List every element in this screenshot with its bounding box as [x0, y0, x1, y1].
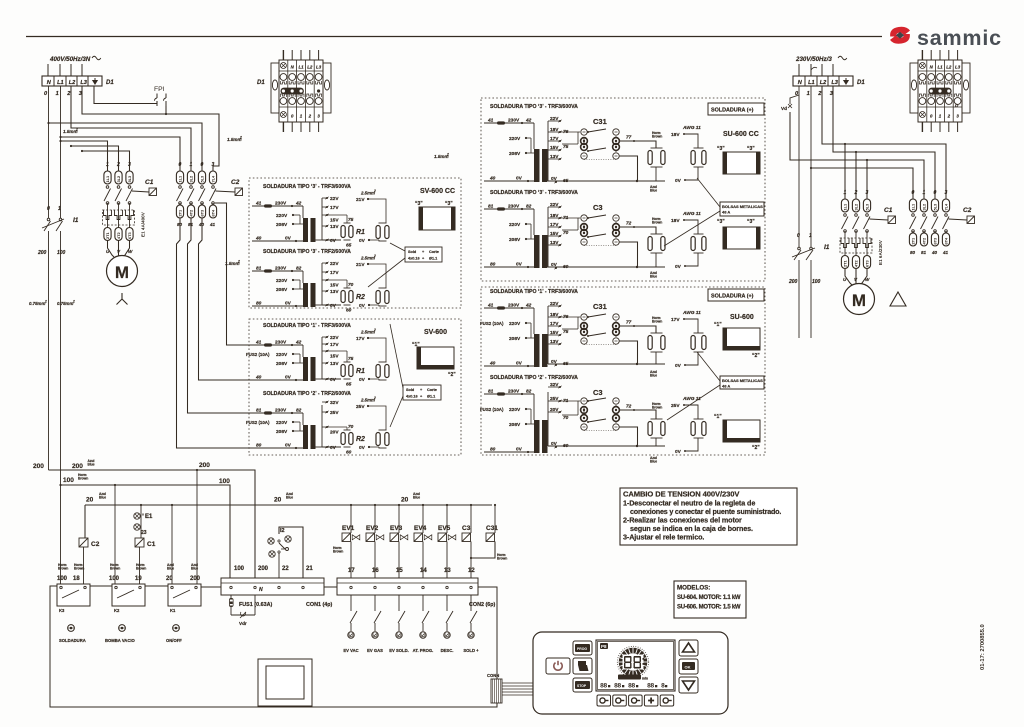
svg-text:2: 2 — [373, 189, 376, 193]
svg-text:2: 2 — [947, 114, 951, 119]
svg-text:3-Ajustar el rele termico.: 3-Ajustar el rele termico. — [623, 533, 704, 542]
svg-text:Brown: Brown — [652, 406, 662, 410]
svg-text:200: 200 — [190, 576, 201, 582]
svg-text:0.75mm: 0.75mm — [29, 301, 45, 306]
soldadura box lower left dotted — [249, 319, 461, 455]
button down arrow — [679, 677, 698, 693]
svg-text:25V: 25V — [550, 396, 559, 402]
svg-text:EV2: EV2 — [366, 525, 379, 532]
svg-text:75: 75 — [348, 356, 354, 362]
svg-text:Brown: Brown — [333, 550, 343, 554]
svg-text:Brown: Brown — [652, 135, 662, 139]
svg-text:“3”: “3” — [747, 146, 755, 152]
transformer secondary taps right — [547, 207, 549, 267]
svg-text:Brown: Brown — [110, 567, 120, 571]
svg-text:L3: L3 — [955, 65, 961, 70]
svg-text:208V: 208V — [276, 287, 288, 293]
svg-text:“2”: “2” — [752, 353, 760, 359]
svg-text:SOLDADURA TIPO ‘2’ - TRF2/600V: SOLDADURA TIPO ‘2’ - TRF2/600VA — [490, 375, 578, 381]
svg-text:SOLDADURA (+): SOLDADURA (+) — [711, 294, 754, 300]
svg-text:75: 75 — [348, 217, 354, 223]
svg-text:200: 200 — [33, 463, 44, 470]
svg-text:25V: 25V — [330, 410, 339, 416]
svg-text:I2: I2 — [280, 528, 285, 534]
svg-text:2.5mm: 2.5mm — [360, 191, 375, 196]
svg-text:EV GAS: EV GAS — [367, 648, 383, 653]
svg-text:BOLSAS METALICAS: BOLSAS METALICAS — [722, 204, 763, 209]
svg-text:0V: 0V — [330, 238, 337, 244]
sammic logo red S icon — [890, 27, 910, 44]
svg-text:20V: 20V — [330, 430, 339, 436]
right bundle h3 from Vd tap — [790, 112, 924, 199]
svg-text:220V: 220V — [276, 352, 288, 358]
svg-text:100: 100 — [219, 478, 230, 485]
svg-text:L1: L1 — [808, 80, 815, 86]
wires contactor C1 to motor — [108, 240, 115, 257]
svg-text:42: 42 — [525, 303, 532, 309]
svg-text:C3: C3 — [593, 388, 603, 397]
svg-text:17V: 17V — [550, 222, 559, 228]
svg-text:L2: L2 — [69, 80, 76, 86]
svg-text:3: 3 — [128, 162, 131, 168]
svg-text:22V: 22V — [330, 196, 339, 202]
cambio de tension box — [620, 488, 797, 545]
svg-text:EV1: EV1 — [342, 525, 355, 532]
0V rail right section — [548, 180, 665, 182]
svg-text:“3”: “3” — [445, 201, 453, 207]
svg-text:Brown: Brown — [652, 320, 662, 324]
svg-text:17V: 17V — [671, 317, 680, 323]
relay coil C1 — [135, 538, 144, 547]
svg-text:4x0.16: 4x0.16 — [406, 395, 418, 399]
svg-text:88: 88 — [628, 683, 635, 690]
indicator circle ON/OFF — [173, 625, 180, 632]
svg-text:01-17: 2700855.0: 01-17: 2700855.0 — [980, 624, 986, 670]
svg-text:FUS1 (0.63A): FUS1 (0.63A) — [239, 602, 272, 608]
svg-text:4T2: 4T2 — [854, 259, 859, 267]
output switches below CON2 — [350, 595, 352, 611]
svg-text:208V: 208V — [509, 422, 521, 428]
svg-text:2: 2 — [308, 114, 312, 119]
indicator circle SOLDADURA — [68, 625, 75, 632]
EV coil drops from 20 bus — [350, 504, 352, 506]
display 88 seven-segment digits — [625, 656, 632, 658]
sold/corte info box upper — [405, 247, 442, 262]
bus 200 — [49, 470, 256, 578]
svg-text:220V: 220V — [276, 420, 288, 426]
svg-text:200: 200 — [37, 250, 47, 256]
svg-text:I1: I1 — [73, 217, 79, 224]
svg-text:88: 88 — [600, 683, 607, 690]
svg-text:70: 70 — [563, 415, 569, 421]
svg-text:100: 100 — [109, 576, 120, 582]
svg-text:6T3: 6T3 — [933, 237, 938, 245]
svg-text:208V: 208V — [509, 237, 521, 243]
svg-text:208V: 208V — [276, 222, 288, 228]
pointer lines bolsas lower — [697, 352, 720, 381]
bolsas metalicas box lower — [720, 376, 764, 389]
svg-text:15V: 15V — [550, 231, 559, 237]
svg-text:100: 100 — [63, 477, 74, 484]
svg-text:1: 1 — [809, 233, 812, 239]
svg-text:K2: K2 — [114, 608, 120, 613]
svg-text:5L3: 5L3 — [127, 175, 132, 183]
relay output wire 72 — [619, 410, 656, 419]
svg-text:22V: 22V — [330, 261, 339, 267]
svg-text:2T1: 2T1 — [843, 259, 848, 267]
svg-text:sammic: sammic — [917, 26, 1002, 50]
svg-text:Blue: Blue — [88, 463, 95, 467]
svg-text:100: 100 — [812, 279, 821, 285]
svg-text:AT. PROG.: AT. PROG. — [413, 648, 434, 653]
0V rail right section — [548, 363, 665, 365]
svg-text:min: min — [642, 677, 648, 681]
svg-text:230V: 230V — [275, 201, 287, 207]
wires contactor C1 right to motor — [845, 268, 852, 285]
svg-text:2: 2 — [72, 300, 75, 304]
svg-text:0: 0 — [934, 190, 937, 196]
transformer secondary taps right — [547, 121, 549, 181]
svg-text:SOLDADURA TIPO ‘1’ - TRF3/600V: SOLDADURA TIPO ‘1’ - TRF3/600VA — [263, 323, 351, 329]
svg-text:Brown: Brown — [58, 567, 68, 571]
svg-text:3: 3 — [945, 190, 948, 196]
svg-text:200: 200 — [258, 566, 269, 572]
svg-text:15: 15 — [396, 568, 403, 574]
svg-text:0V: 0V — [330, 377, 337, 383]
right pole drop 867 — [866, 160, 868, 199]
svg-text:0V: 0V — [359, 445, 366, 451]
svg-text:230V: 230V — [275, 266, 287, 272]
wire bus y123 to C2 pole 3 — [49, 123, 203, 171]
svg-text:6T3: 6T3 — [865, 259, 870, 267]
relay matrix return wire — [619, 156, 637, 181]
svg-text:80: 80 — [910, 250, 916, 255]
wire 81 feeder to lower box — [188, 218, 253, 413]
wire L3 right bundle h2 — [833, 86, 935, 199]
svg-text:“2”: “2” — [448, 372, 456, 378]
svg-text:100: 100 — [57, 250, 66, 256]
svg-text:2T1: 2T1 — [911, 237, 916, 245]
svg-text:3L2: 3L2 — [189, 175, 194, 183]
svg-text:EV SOLD.: EV SOLD. — [389, 648, 409, 653]
right pole drop 845 — [844, 144, 846, 199]
terminal block wire stubs — [921, 50, 923, 60]
wire 100 to K2 — [114, 485, 116, 584]
svg-text:Vdr: Vdr — [239, 621, 247, 626]
svg-text:16: 16 — [372, 568, 379, 574]
svg-text:21V: 21V — [356, 197, 365, 203]
svg-text:EV3: EV3 — [390, 525, 403, 532]
svg-text:17V: 17V — [330, 270, 339, 276]
svg-text:81: 81 — [921, 250, 927, 255]
transformer secondary taps right — [547, 306, 549, 364]
svg-text:Brown: Brown — [78, 477, 88, 481]
svg-text:1: 1 — [106, 162, 109, 168]
svg-text:60: 60 — [346, 450, 352, 456]
wire N right down to I1 — [798, 86, 800, 247]
svg-text:2: 2 — [237, 260, 240, 264]
svg-text:40: 40 — [931, 250, 938, 255]
svg-text:FUS2 (10A): FUS2 (10A) — [480, 321, 504, 326]
svg-text:70: 70 — [563, 230, 569, 236]
sold/corte info box lower — [403, 385, 441, 400]
display 888 min blob — [618, 675, 641, 680]
svg-text:AWG 11: AWG 11 — [682, 211, 701, 217]
0V rail right section — [548, 445, 665, 447]
svg-text:“3”: “3” — [415, 201, 423, 207]
svg-text:3L2: 3L2 — [116, 175, 121, 183]
main electronics board box — [50, 586, 497, 707]
relay output wire 77 — [619, 141, 656, 148]
svg-text:SOLDADURA TIPO ‘3’ - TRF2/600V: SOLDADURA TIPO ‘3’ - TRF2/600VA — [263, 249, 351, 255]
svg-text:0V: 0V — [675, 264, 682, 270]
svg-text:60: 60 — [563, 443, 569, 449]
wire C2 coil branch — [84, 505, 86, 538]
svg-text:19: 19 — [135, 576, 142, 582]
svg-text:7L4: 7L4 — [211, 175, 216, 183]
svg-text:C2: C2 — [91, 541, 100, 548]
wire 41 feeder to lower box — [215, 203, 252, 345]
svg-text:22V: 22V — [330, 335, 339, 341]
terminal block body — [918, 60, 962, 122]
svg-text:17V: 17V — [330, 205, 339, 211]
svg-text:40: 40 — [198, 222, 205, 227]
transformer secondary taps — [321, 405, 323, 447]
svg-text:MODELOS:: MODELOS: — [677, 585, 710, 592]
wire bus y141 to C1 pole 1 — [61, 141, 108, 171]
right bundle h4 — [811, 168, 913, 199]
svg-text:2: 2 — [66, 91, 71, 97]
wire 100 down left column — [60, 231, 62, 485]
svg-text:CON2 (6p): CON2 (6p) — [469, 602, 496, 608]
relay matrix return wire — [619, 341, 637, 364]
svg-text:18: 18 — [73, 576, 80, 582]
svg-text:Blue: Blue — [286, 496, 293, 500]
svg-text:C1: C1 — [884, 207, 893, 214]
svg-text:AWG 11: AWG 11 — [682, 125, 701, 131]
svg-text:R1: R1 — [356, 368, 365, 375]
svg-text:R2: R2 — [356, 294, 365, 301]
top border rule — [26, 36, 882, 38]
svg-text:22: 22 — [282, 566, 289, 572]
terminal strip D1 left — [42, 76, 102, 86]
svg-text:2: 2 — [854, 190, 858, 196]
wire L1 right down to I1 — [810, 86, 812, 247]
svg-text:220V: 220V — [509, 222, 521, 228]
svg-text:CAMBIO DE TENSION 400V/230V: CAMBIO DE TENSION 400V/230V — [623, 490, 740, 499]
svg-text:Corte: Corte — [427, 388, 437, 392]
resistor R1 — [327, 214, 347, 216]
svg-text:0: 0 — [201, 162, 204, 168]
svg-text:41: 41 — [209, 222, 216, 227]
svg-text:EV5: EV5 — [438, 525, 451, 532]
svg-text:Blue: Blue — [413, 496, 420, 500]
svg-text:2: 2 — [116, 162, 120, 168]
svg-text:C31: C31 — [593, 117, 607, 126]
svg-text:FPI: FPI — [154, 86, 165, 93]
svg-text:“3”: “3” — [747, 219, 755, 225]
svg-text:0V: 0V — [675, 178, 682, 184]
svg-text:1L1: 1L1 — [178, 175, 183, 183]
svg-text:Blue: Blue — [191, 567, 198, 571]
svg-text:42: 42 — [525, 118, 532, 124]
svg-text:2: 2 — [373, 328, 376, 332]
terminal block body — [279, 60, 323, 122]
svg-text:FUS2 (10A): FUS2 (10A) — [246, 352, 270, 357]
svg-text:“2”: “2” — [752, 445, 760, 451]
wire 20 to K1 — [171, 505, 173, 584]
svg-text:R2: R2 — [356, 436, 365, 443]
button PROG — [573, 641, 592, 655]
wire 40 feeder to lower box — [199, 218, 253, 380]
control panel body — [533, 632, 728, 714]
bus 20 — [85, 504, 492, 506]
svg-text:15V: 15V — [550, 330, 559, 336]
svg-text:1: 1 — [190, 162, 193, 168]
svg-text:13V: 13V — [330, 289, 339, 295]
svg-text:208V: 208V — [276, 361, 288, 367]
relay K3 box — [57, 584, 90, 606]
svg-text:77: 77 — [626, 320, 632, 326]
transformer core SOLDADURA TIPO ‘3’ - TRF3/600VA — [303, 218, 308, 242]
svg-text:2: 2 — [75, 128, 78, 132]
svg-text:SOLDADURA TIPO ‘2’ - TRF2/600V: SOLDADURA TIPO ‘2’ - TRF2/600VA — [263, 391, 351, 397]
svg-text:SV-600 CC: SV-600 CC — [420, 188, 455, 195]
svg-text:230V/50Hz/3: 230V/50Hz/3 — [795, 56, 832, 63]
relay K1 box — [168, 584, 201, 606]
fuse FPI symbol — [156, 94, 158, 99]
svg-text:SOLDADURA (+): SOLDADURA (+) — [711, 108, 754, 114]
transformer core SOLDADURA TIPO ‘1’ - TRF3/600VA right — [534, 334, 540, 367]
svg-text:21: 21 — [306, 566, 313, 572]
svg-text:AWG 11: AWG 11 — [682, 310, 701, 316]
soldadura box upper right dotted — [481, 98, 765, 281]
svg-text:70: 70 — [348, 424, 354, 430]
svg-text:4x0.16: 4x0.16 — [408, 257, 420, 261]
0V rail right section — [548, 266, 665, 268]
svg-text:4T2: 4T2 — [116, 231, 121, 239]
svg-text:CONN: CONN — [487, 673, 499, 678]
svg-text:2T1: 2T1 — [178, 209, 183, 217]
svg-text:6T3: 6T3 — [200, 209, 205, 217]
svg-text:I1: I1 — [824, 244, 830, 251]
transformer secondary taps — [321, 198, 323, 240]
svg-text:OK: OK — [685, 665, 691, 670]
resistor R2 — [327, 279, 347, 281]
svg-text:3L2: 3L2 — [854, 203, 859, 211]
svg-text:3L2: 3L2 — [922, 203, 927, 211]
svg-text:220V: 220V — [509, 321, 521, 327]
soldadura box lower right dotted — [481, 287, 765, 455]
SOLDADURA (+) box upper — [708, 103, 764, 115]
svg-text:5L3: 5L3 — [865, 203, 870, 211]
svg-text:18V: 18V — [550, 127, 559, 133]
terminal block side tabs — [271, 63, 279, 113]
varistor Vdr — [231, 614, 255, 616]
button OK — [679, 659, 698, 674]
svg-text:FUS2 (10A): FUS2 (10A) — [480, 407, 504, 412]
svg-text:5L3: 5L3 — [933, 203, 938, 211]
svg-text:L1: L1 — [937, 65, 943, 70]
transformer secondary taps — [321, 337, 323, 379]
svg-text:18V: 18V — [550, 312, 559, 318]
svg-text:230V: 230V — [275, 340, 287, 346]
svg-text:C3: C3 — [462, 525, 471, 532]
svg-text:Brown: Brown — [136, 567, 146, 571]
svg-text:L2: L2 — [946, 65, 952, 70]
svg-text:100: 100 — [234, 566, 245, 572]
svg-text:SOLDADURA TIPO ‘3’ - TRF3/600V: SOLDADURA TIPO ‘3’ - TRF3/600VA — [490, 104, 578, 110]
svg-text:20: 20 — [274, 497, 282, 504]
svg-text:4T2: 4T2 — [189, 209, 194, 217]
wire bus y151 to C1 pole 3 — [82, 151, 130, 171]
svg-text:17V: 17V — [550, 136, 559, 142]
svg-text:0: 0 — [912, 190, 915, 196]
svg-text:20: 20 — [166, 576, 173, 582]
svg-text:L3: L3 — [831, 80, 838, 86]
wire arrow terminal to FPI — [94, 86, 157, 104]
wire 100 to K3 — [60, 485, 62, 584]
svg-text:200: 200 — [199, 462, 210, 469]
relay K2 box — [112, 584, 145, 606]
svg-text:200: 200 — [788, 279, 798, 285]
svg-text:2: 2 — [239, 136, 242, 140]
svg-text:22V: 22V — [550, 301, 559, 307]
svg-text:220V: 220V — [509, 407, 521, 413]
svg-text:400V/50Hz/3N: 400V/50Hz/3N — [49, 56, 91, 63]
transformer core SOLDADURA TIPO ‘3’ - TRF3/600VA right — [534, 149, 540, 182]
svg-text:208V: 208V — [509, 336, 521, 342]
pointer lines sold/corte lower — [390, 324, 403, 388]
svg-text:13V: 13V — [550, 154, 559, 160]
svg-text:Brown: Brown — [652, 221, 662, 225]
svg-text:0: 0 — [797, 233, 800, 239]
button print — [573, 658, 592, 674]
svg-text:5L3: 5L3 — [200, 175, 205, 183]
svg-text:65: 65 — [563, 178, 569, 184]
svg-text:7L4: 7L4 — [944, 203, 949, 211]
svg-text:1L1: 1L1 — [911, 203, 916, 211]
wire FPI output down — [165, 106, 167, 114]
svg-text:2.5mm: 2.5mm — [360, 256, 375, 261]
svg-text:Blue: Blue — [167, 567, 174, 571]
svg-text:20: 20 — [86, 497, 94, 504]
svg-text:65: 65 — [346, 243, 352, 249]
svg-text:D1: D1 — [106, 80, 114, 86]
svg-text:25V: 25V — [671, 403, 680, 409]
svg-text:230V: 230V — [508, 303, 520, 309]
svg-text:D1: D1 — [857, 80, 865, 86]
svg-text:18V: 18V — [671, 132, 680, 138]
svg-text:13: 13 — [444, 568, 451, 574]
svg-text:14: 14 — [420, 568, 427, 574]
svg-text:82: 82 — [526, 389, 532, 395]
svg-text:6T4: 6T4 — [211, 209, 216, 217]
transformer core SOLDADURA TIPO ‘3’ - TRF3/600VA right — [534, 235, 540, 268]
display cutout box — [258, 659, 312, 706]
svg-text:75: 75 — [563, 144, 569, 150]
svg-text:6T3: 6T3 — [127, 231, 132, 239]
svg-text:1: 1 — [923, 190, 926, 196]
svg-text:1: 1 — [58, 206, 61, 212]
fuse FUS1 — [230, 595, 232, 615]
svg-text:82: 82 — [526, 204, 532, 210]
svg-text:EV4: EV4 — [414, 525, 427, 532]
svg-text:0V: 0V — [330, 303, 337, 309]
svg-text:D1: D1 — [257, 80, 265, 86]
svg-text:0V: 0V — [675, 363, 682, 369]
pointer lines bolsas upper — [697, 178, 720, 207]
